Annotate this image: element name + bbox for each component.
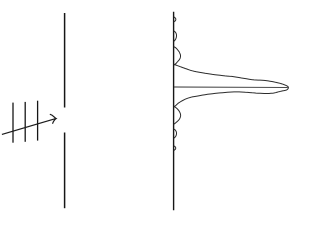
wavefront tick 1 <box>12 103 14 143</box>
slit barrier lower segment <box>64 133 66 209</box>
wavefront tick 3 <box>37 101 39 141</box>
wavefront tick 2 <box>24 102 26 142</box>
incident ray arrow shaft <box>2 119 55 135</box>
upper 2nd side lobe <box>174 31 177 42</box>
slit barrier upper segment <box>64 13 66 108</box>
screen line <box>173 12 175 211</box>
lower 1st side lobe <box>174 106 181 124</box>
lower 2nd side lobe <box>174 129 177 139</box>
upper 1st side lobe <box>174 47 181 65</box>
central axis line <box>174 86 288 88</box>
upper 3rd side lobe <box>174 17 176 22</box>
main diffraction lobe <box>174 64 289 107</box>
arrowhead <box>50 114 56 123</box>
lower 3rd side lobe <box>174 146 176 151</box>
